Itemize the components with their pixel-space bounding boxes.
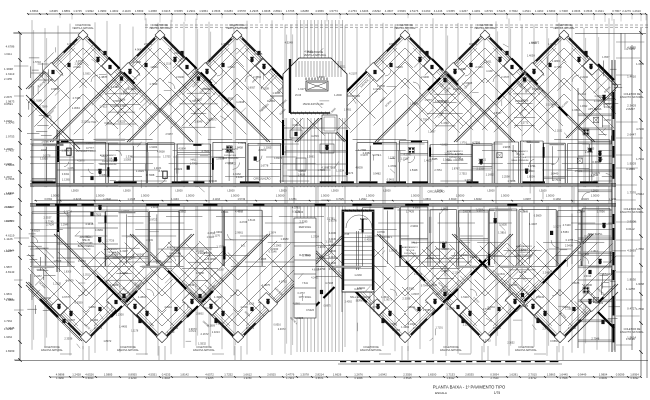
svg-text:1.2000: 1.2000: [334, 94, 342, 97]
svg-text:L5000: L5000: [71, 189, 79, 193]
svg-text:1.1813: 1.1813: [591, 250, 599, 253]
svg-text:4.9418: 4.9418: [304, 49, 312, 53]
svg-text:1.1850: 1.1850: [88, 306, 96, 309]
svg-text:AREA SERVL: AREA SERVL: [588, 233, 604, 236]
svg-text:0.1462: 0.1462: [553, 198, 561, 201]
svg-text:TIPO DE: TIPO DE: [516, 154, 525, 156]
svg-text:1.1034: 1.1034: [238, 141, 246, 145]
bottom apartment diamond wing 3: [130, 234, 238, 342]
svg-text:4.9647: 4.9647: [135, 48, 143, 52]
svg-text:1.1518: 1.1518: [164, 63, 172, 66]
svg-text:0.1621: 0.1621: [595, 9, 604, 13]
svg-text:1.9780: 1.9780: [244, 376, 252, 380]
svg-text:6.4230: 6.4230: [329, 244, 337, 247]
svg-text:2.5353: 2.5353: [561, 230, 569, 234]
svg-text:1.5053: 1.5053: [123, 158, 131, 161]
svg-text:1.5334: 1.5334: [336, 168, 344, 172]
svg-text:1.5116: 1.5116: [461, 295, 469, 299]
svg-text:1.6972: 1.6972: [318, 246, 326, 249]
svg-text:4.8582: 4.8582: [225, 97, 233, 101]
svg-text:2.7549: 2.7549: [491, 376, 499, 380]
svg-text:2.6270: 2.6270: [174, 51, 182, 55]
svg-text:1.8163: 1.8163: [227, 66, 235, 69]
svg-text:REM SINAL: REM SINAL: [299, 226, 312, 229]
svg-text:4.8059: 4.8059: [355, 167, 363, 170]
svg-text:1.5000: 1.5000: [141, 194, 150, 198]
svg-text:2.3545: 2.3545: [591, 174, 599, 177]
svg-text:2.8207: 2.8207: [626, 107, 635, 111]
svg-text:1.8269: 1.8269: [6, 349, 15, 353]
svg-text:VENTILA NATURAL: VENTILA NATURAL: [394, 27, 416, 30]
svg-text:0.6934: 0.6934: [86, 376, 94, 380]
svg-text:4.5571: 4.5571: [316, 376, 324, 380]
svg-text:2.6322: 2.6322: [174, 167, 182, 171]
core side walls: [282, 118, 284, 182]
svg-text:0.8955: 0.8955: [128, 373, 137, 377]
svg-text:0.5961: 0.5961: [493, 326, 501, 330]
svg-text:1.4639: 1.4639: [298, 174, 306, 177]
svg-text:APARTAMENTO: APARTAMENTO: [104, 248, 121, 251]
svg-text:1.3745: 1.3745: [73, 9, 82, 13]
svg-text:BOBAP: BOBAP: [360, 218, 369, 221]
svg-text:1.6599: 1.6599: [135, 9, 144, 13]
svg-text:ESGOSA NATURAL: ESGOSA NATURAL: [440, 349, 462, 352]
svg-text:1.5745: 1.5745: [341, 232, 349, 236]
top-left edge diagonals: [26, 95, 80, 149]
svg-text:1.1480: 1.1480: [121, 91, 129, 95]
svg-text:0.9478: 0.9478: [361, 154, 369, 157]
svg-text:1.9539: 1.9539: [146, 239, 154, 242]
svg-text:1.1235: 1.1235: [528, 79, 536, 83]
svg-text:BASE PREMIUM: BASE PREMIUM: [167, 255, 184, 258]
svg-text:1.5043: 1.5043: [577, 241, 585, 244]
svg-text:2.7015: 2.7015: [528, 373, 537, 377]
svg-text:2.9657: 2.9657: [410, 101, 418, 105]
svg-text:2.4280: 2.4280: [4, 162, 12, 166]
svg-text:2.7554: 2.7554: [421, 118, 429, 122]
svg-text:L5000: L5000: [227, 189, 235, 193]
svg-text:1.3397: 1.3397: [428, 131, 436, 134]
svg-text:BASE PREMIUM: BASE PREMIUM: [100, 163, 117, 166]
svg-text:1.9190: 1.9190: [626, 337, 635, 341]
svg-text:4.4382: 4.4382: [111, 85, 119, 89]
svg-text:1.7944: 1.7944: [636, 157, 644, 161]
middle band lower rooms: [32, 211, 68, 213]
svg-text:1.4905: 1.4905: [4, 147, 13, 151]
svg-text:L5000: L5000: [383, 189, 391, 193]
svg-text:0.3703: 0.3703: [469, 42, 477, 46]
svg-text:1.4059: 1.4059: [527, 54, 535, 58]
svg-text:2.3823: 2.3823: [427, 257, 435, 260]
right dimension columns: [620, 33, 622, 360]
svg-text:BASE PREMIUM: BASE PREMIUM: [516, 254, 533, 257]
svg-text:1.6281: 1.6281: [509, 373, 518, 377]
svg-text:0.4207: 0.4207: [236, 175, 244, 179]
svg-text:1.9964: 1.9964: [461, 253, 469, 257]
svg-text:2.6925: 2.6925: [267, 373, 276, 377]
svg-text:1.4405: 1.4405: [119, 325, 127, 329]
svg-text:4.3418: 4.3418: [85, 222, 93, 226]
svg-text:4.9847: 4.9847: [441, 248, 449, 251]
svg-text:4.6986: 4.6986: [413, 207, 421, 210]
svg-text:1.2587: 1.2587: [4, 192, 13, 196]
svg-text:1.3450: 1.3450: [120, 272, 128, 275]
svg-text:1.2676: 1.2676: [354, 373, 363, 377]
svg-text:2.3038: 2.3038: [402, 297, 410, 301]
svg-text:1.6786: 1.6786: [41, 140, 49, 143]
svg-text:0.5055: 0.5055: [174, 9, 183, 13]
svg-text:1.7589: 1.7589: [39, 105, 47, 109]
svg-text:1.3878: 1.3878: [99, 75, 107, 79]
svg-text:4.5669: 4.5669: [397, 9, 406, 13]
svg-text:4.7486: 4.7486: [73, 96, 81, 100]
svg-text:4.8143: 4.8143: [6, 270, 15, 274]
svg-text:1.8288: 1.8288: [300, 9, 309, 13]
svg-text:4.8547: 4.8547: [494, 111, 502, 115]
svg-text:1.1278: 1.1278: [626, 287, 635, 291]
svg-text:2.1101: 2.1101: [4, 205, 12, 209]
svg-text:1.6440: 1.6440: [551, 173, 559, 176]
svg-text:1.8287: 1.8287: [523, 198, 531, 201]
svg-text:1.2804: 1.2804: [138, 295, 146, 299]
svg-text:1.6300: 1.6300: [317, 75, 325, 79]
svg-text:VENTILA NATURAL: VENTILA NATURAL: [72, 27, 94, 30]
right block extra fixtures: [602, 96, 605, 101]
svg-text:2.3536: 2.3536: [64, 336, 72, 340]
svg-text:7.641: 7.641: [302, 283, 308, 285]
svg-text:1.5220: 1.5220: [603, 273, 611, 276]
svg-text:4.1617: 4.1617: [195, 99, 203, 102]
svg-text:1.3792: 1.3792: [464, 178, 472, 182]
svg-text:1.2055: 1.2055: [263, 146, 271, 150]
svg-text:BASE PREBAIL: BASE PREBAIL: [78, 245, 95, 248]
svg-text:0.4440: 0.4440: [133, 60, 141, 64]
svg-text:0.8516: 0.8516: [274, 323, 282, 326]
svg-text:1.3980: 1.3980: [98, 9, 107, 13]
svg-text:1.6434: 1.6434: [110, 105, 118, 108]
svg-text:2.8121: 2.8121: [478, 158, 486, 161]
svg-text:4.1856: 4.1856: [626, 167, 635, 171]
svg-text:2.7726: 2.7726: [106, 238, 114, 242]
left-side room block: [56, 130, 58, 272]
svg-text:2.5312: 2.5312: [636, 192, 644, 196]
svg-text:0.1081: 0.1081: [408, 323, 416, 326]
svg-text:1.3267: 1.3267: [459, 9, 468, 13]
svg-text:L5000: L5000: [487, 189, 495, 193]
svg-text:1.6795: 1.6795: [286, 9, 295, 13]
central stair and elevator core (top): [283, 58, 347, 118]
svg-text:2.9206: 2.9206: [627, 220, 636, 224]
svg-text:0.9482: 0.9482: [373, 172, 381, 175]
svg-text:0.8246: 0.8246: [104, 121, 112, 125]
svg-text:6.4030: 6.4030: [329, 232, 337, 235]
svg-text:2.6447: 2.6447: [627, 133, 636, 137]
svg-text:4.8803: 4.8803: [298, 170, 306, 173]
svg-text:TIPO DE: TIPO DE: [226, 152, 235, 154]
svg-text:TIPO DE: TIPO DE: [451, 154, 460, 156]
svg-text:1.2242: 1.2242: [103, 198, 111, 201]
svg-text:1025 A 1900: 1025 A 1900: [224, 154, 237, 157]
svg-text:APT. SERVL: APT. SERVL: [588, 108, 602, 111]
svg-text:0.9396: 0.9396: [43, 297, 51, 300]
svg-text:1.5000: 1.5000: [591, 194, 600, 198]
svg-text:1.2949: 1.2949: [61, 224, 69, 227]
svg-text:0.4235: 0.4235: [162, 373, 171, 377]
svg-text:2.8821: 2.8821: [273, 9, 282, 13]
svg-text:1.5109: 1.5109: [546, 104, 554, 107]
svg-text:2.1851: 2.1851: [365, 236, 373, 239]
svg-text:TIPO DE: TIPO DE: [406, 250, 415, 252]
svg-text:1.2521: 1.2521: [522, 9, 531, 13]
svg-text:2.5525: 2.5525: [404, 376, 412, 380]
svg-text:2.9588: 2.9588: [521, 100, 529, 103]
svg-text:1.6831: 1.6831: [4, 292, 12, 296]
svg-text:2.2132: 2.2132: [580, 75, 588, 79]
svg-text:1.1338: 1.1338: [127, 198, 135, 201]
bottom dimension line with ticks and measurements: [50, 376, 641, 378]
svg-text:ESGOTO NATURAL: ESGOTO NATURAL: [620, 330, 644, 334]
svg-text:SUITE 1: SUITE 1: [372, 154, 382, 157]
svg-text:1.5189: 1.5189: [470, 256, 478, 259]
svg-text:0.6283: 0.6283: [224, 9, 233, 13]
svg-text:2.7946: 2.7946: [591, 337, 599, 341]
svg-text:4.3086: 4.3086: [99, 174, 107, 177]
vertical grid lines: [31, 20, 33, 350]
svg-text:1.4958: 1.4958: [148, 9, 157, 13]
top apartment diamond wing 1: [26, 32, 83, 89]
svg-text:1.2262: 1.2262: [463, 322, 471, 326]
svg-text:0.4776: 0.4776: [286, 373, 295, 377]
svg-text:2.8292: 2.8292: [372, 9, 381, 13]
top collector dashed lines: [13, 32, 83, 34]
svg-text:0.6092: 0.6092: [631, 376, 639, 380]
svg-text:2.6693: 2.6693: [547, 9, 556, 13]
svg-text:2.1672: 2.1672: [201, 332, 209, 336]
svg-text:1.2133: 1.2133: [295, 210, 303, 214]
svg-text:1.1178: 1.1178: [131, 330, 139, 333]
svg-text:1.4893: 1.4893: [552, 59, 560, 63]
bottom apartment diamond wing 6: [452, 234, 560, 342]
svg-text:4.3816: 4.3816: [67, 42, 75, 46]
svg-text:1.9753: 1.9753: [6, 135, 15, 139]
svg-text:TIPO DE: TIPO DE: [104, 158, 113, 160]
svg-text:1.3369: 1.3369: [167, 331, 175, 334]
svg-text:1/75: 1/75: [494, 391, 500, 395]
svg-text:HALL: HALL: [191, 158, 198, 161]
svg-text:2.5457: 2.5457: [166, 133, 174, 136]
svg-text:2.1007: 2.1007: [413, 326, 421, 330]
svg-text:4.3656: 4.3656: [315, 9, 324, 13]
svg-text:APARTAMENTO: APARTAMENTO: [402, 246, 419, 249]
svg-text:ESGOSA NATURAL: ESGOSA NATURAL: [193, 349, 215, 352]
svg-text:4.5093: 4.5093: [627, 249, 636, 253]
svg-text:APARTAMENTO: APARTAMENTO: [512, 150, 529, 153]
svg-text:1.9177: 1.9177: [298, 87, 306, 91]
svg-text:1.9537: 1.9537: [602, 56, 610, 59]
svg-text:SERVIL: SERVIL: [356, 300, 365, 303]
svg-text:2.2598: 2.2598: [502, 174, 510, 178]
bottom apartment diamond wing 4: [297, 234, 405, 342]
svg-text:2.6156: 2.6156: [585, 150, 593, 154]
svg-text:4.5876: 4.5876: [77, 160, 85, 163]
svg-text:1.5205: 1.5205: [295, 316, 303, 320]
svg-text:1.5000: 1.5000: [366, 194, 375, 198]
svg-text:0.3491: 0.3491: [62, 173, 70, 176]
svg-text:4.3944: 4.3944: [164, 306, 172, 309]
svg-text:L5000: L5000: [279, 189, 287, 193]
svg-text:4.1812: 4.1812: [440, 144, 448, 147]
svg-text:1.5072: 1.5072: [574, 170, 582, 173]
svg-text:1.6083: 1.6083: [392, 328, 400, 332]
svg-text:4.7599: 4.7599: [472, 141, 480, 145]
svg-text:2.8535: 2.8535: [465, 373, 474, 377]
left dimension column: [19, 33, 21, 360]
svg-text:4.5578: 4.5578: [237, 9, 246, 13]
svg-text:1.6036: 1.6036: [209, 179, 217, 183]
svg-text:1.5710: 1.5710: [33, 60, 41, 64]
svg-text:1.4281: 1.4281: [472, 9, 481, 13]
svg-text:1.9638: 1.9638: [262, 9, 271, 13]
svg-text:1.9451: 1.9451: [344, 109, 352, 112]
svg-text:APARTAMENTO: APARTAMENTO: [100, 154, 117, 157]
svg-text:2.6903: 2.6903: [476, 208, 484, 211]
svg-text:0.3834: 0.3834: [490, 373, 499, 377]
svg-text:1.3513: 1.3513: [83, 273, 91, 276]
svg-text:2.3556: 2.3556: [403, 373, 412, 377]
svg-text:1.3938: 1.3938: [4, 67, 13, 71]
svg-text:4.2726: 4.2726: [239, 221, 247, 224]
svg-text:1.5000: 1.5000: [456, 194, 465, 198]
svg-text:1.8309: 1.8309: [64, 271, 72, 274]
svg-text:2.9135: 2.9135: [144, 42, 152, 46]
top inter-unit crossing walls: [109, 58, 120, 69]
svg-text:0.1630: 0.1630: [499, 224, 507, 227]
svg-text:0.4629: 0.4629: [128, 87, 136, 91]
svg-text:1.1533: 1.1533: [636, 62, 644, 66]
svg-text:1.6612: 1.6612: [243, 373, 252, 377]
svg-text:1.7749: 1.7749: [46, 220, 54, 224]
svg-text:0.6112: 0.6112: [626, 227, 635, 231]
svg-text:1.4708: 1.4708: [118, 104, 126, 108]
svg-text:0.9215: 0.9215: [162, 9, 171, 13]
svg-text:4.3074: 4.3074: [4, 219, 12, 223]
svg-text:1.2610: 1.2610: [632, 9, 641, 13]
svg-text:4.7200: 4.7200: [636, 127, 644, 131]
svg-text:4.7440: 4.7440: [563, 223, 571, 227]
svg-text:1.2411: 1.2411: [484, 59, 492, 63]
svg-text:1.4103: 1.4103: [424, 160, 432, 163]
svg-text:1.1282: 1.1282: [388, 157, 396, 160]
bottom inter-unit crossing walls: [111, 306, 122, 317]
svg-text:1.8465: 1.8465: [49, 9, 58, 13]
svg-text:CITY SINAL: CITY SINAL: [299, 296, 312, 299]
bottom-right edge diagonal: [568, 292, 618, 342]
svg-text:1025 A 1900: 1025 A 1900: [102, 160, 115, 163]
svg-text:1.3107: 1.3107: [120, 250, 128, 253]
svg-text:1.2607: 1.2607: [4, 175, 12, 179]
svg-text:2.2558: 2.2558: [477, 167, 485, 171]
svg-text:1.6564: 1.6564: [30, 9, 39, 13]
svg-text:1.8881: 1.8881: [62, 9, 71, 13]
svg-text:1.4194: 1.4194: [171, 198, 179, 201]
top apartment diamond wing 5: [375, 32, 485, 142]
svg-text:2.3652: 2.3652: [507, 342, 515, 345]
svg-text:0.6435: 0.6435: [587, 147, 595, 150]
svg-text:1.2922: 1.2922: [359, 198, 367, 201]
top apartment diamond wing 3: [127, 32, 237, 142]
svg-text:1.3683: 1.3683: [281, 237, 289, 241]
svg-text:0.7807: 0.7807: [612, 9, 621, 13]
svg-text:1.7856: 1.7856: [597, 209, 605, 213]
svg-text:1025 A 1900: 1025 A 1900: [404, 252, 417, 255]
svg-text:2.4592: 2.4592: [345, 300, 353, 303]
svg-text:1.2120: 1.2120: [53, 282, 61, 286]
svg-text:1.1816: 1.1816: [40, 157, 48, 160]
svg-text:1.6942: 1.6942: [378, 373, 387, 377]
svg-text:1.5773: 1.5773: [329, 9, 338, 13]
svg-text:0.3983: 0.3983: [95, 228, 103, 232]
svg-text:2.6261: 2.6261: [604, 105, 612, 109]
svg-text:2.3636: 2.3636: [572, 9, 581, 13]
svg-text:0.5225: 0.5225: [497, 9, 506, 13]
svg-text:1.9804: 1.9804: [599, 373, 608, 377]
svg-text:4.6549: 4.6549: [498, 273, 506, 276]
svg-text:1.7308: 1.7308: [559, 9, 568, 13]
svg-text:0.8502: 0.8502: [204, 251, 212, 255]
svg-text:1.1032: 1.1032: [441, 290, 449, 293]
svg-text:2.8040: 2.8040: [195, 121, 203, 124]
svg-text:2.5176: 2.5176: [410, 9, 419, 13]
svg-text:4.2107: 4.2107: [349, 71, 357, 75]
svg-text:1.3799: 1.3799: [388, 164, 396, 168]
svg-text:1.6549: 1.6549: [439, 241, 447, 244]
svg-text:1.8608: 1.8608: [53, 259, 61, 263]
svg-text:1.7625: 1.7625: [94, 214, 102, 217]
svg-text:BASE PREMIUM: BASE PREMIUM: [447, 159, 464, 162]
svg-text:1.3816: 1.3816: [498, 231, 506, 235]
svg-text:1.3716: 1.3716: [460, 141, 468, 144]
bottom base wall line: [15, 360, 648, 362]
svg-text:1.8185: 1.8185: [571, 281, 579, 285]
svg-text:VENTILA NATURAL: VENTILA NATURAL: [553, 27, 575, 30]
svg-text:1.6500: 1.6500: [584, 283, 592, 287]
svg-text:2.9961: 2.9961: [235, 230, 243, 234]
svg-text:2.1109: 2.1109: [122, 9, 131, 13]
svg-text:1.7338: 1.7338: [483, 307, 491, 311]
svg-text:0.8975: 0.8975: [323, 304, 331, 307]
svg-text:0.6591: 0.6591: [4, 102, 13, 106]
svg-text:2.4737: 2.4737: [501, 75, 509, 79]
svg-text:1.8142: 1.8142: [180, 373, 189, 377]
svg-text:0.7949: 0.7949: [421, 285, 429, 288]
svg-text:1.5749: 1.5749: [237, 198, 245, 201]
svg-text:0.7631: 0.7631: [78, 259, 86, 263]
svg-text:2.5537: 2.5537: [44, 216, 52, 220]
svg-text:2.2901: 2.2901: [187, 9, 196, 13]
svg-text:1.5000: 1.5000: [276, 194, 285, 198]
left edge clutter: [31, 72, 49, 74]
svg-text:0.9068: 0.9068: [355, 376, 363, 380]
svg-text:1.2724: 1.2724: [311, 234, 319, 238]
svg-text:2.9319: 2.9319: [584, 275, 592, 278]
svg-text:4.3351: 4.3351: [289, 198, 297, 201]
svg-text:ESGOSA NATURAL: ESGOSA NATURAL: [117, 349, 139, 352]
svg-text:2.6043: 2.6043: [536, 295, 544, 299]
svg-text:1.2428: 1.2428: [72, 373, 81, 377]
svg-text:0.5099: 0.5099: [616, 373, 625, 377]
central corridor with wall fills: [30, 187, 616, 203]
top apartment diamond wing 4: [295, 32, 405, 142]
